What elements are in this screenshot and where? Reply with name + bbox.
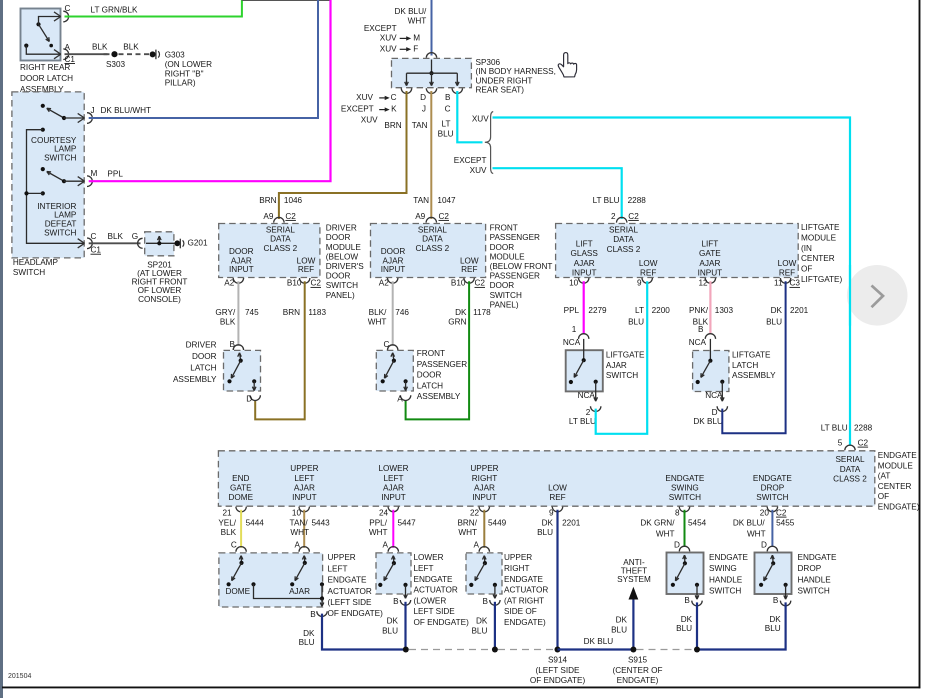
svg-text:BLK: BLK bbox=[123, 43, 139, 52]
wire DK BLU/WHT from headlamp switch pin J bbox=[89, 0, 318, 118]
svg-text:BLK: BLK bbox=[108, 232, 124, 241]
svg-text:DK BLU/: DK BLU/ bbox=[394, 7, 427, 16]
svg-text:DK: DK bbox=[769, 615, 781, 624]
wire TAN 1047 from SP306 to front passenger door module pin A9 bbox=[430, 91, 432, 219]
svg-text:SERIAL: SERIAL bbox=[609, 226, 639, 235]
svg-text:M: M bbox=[413, 34, 420, 43]
svg-text:LOWER: LOWER bbox=[414, 553, 444, 562]
svg-text:GLASS: GLASS bbox=[571, 249, 599, 258]
liftgate latch switch contacts bbox=[709, 339, 711, 361]
svg-text:ENDGATE): ENDGATE) bbox=[504, 618, 546, 627]
svg-text:SWING: SWING bbox=[709, 564, 737, 573]
svg-text:GRY/: GRY/ bbox=[215, 308, 236, 317]
svg-text:LOW: LOW bbox=[297, 256, 316, 265]
svg-text:K: K bbox=[391, 105, 397, 114]
svg-text:RIGHT: RIGHT bbox=[472, 474, 497, 483]
svg-text:LOW: LOW bbox=[778, 259, 797, 268]
svg-text:PANEL): PANEL) bbox=[490, 300, 519, 309]
svg-text:SWITCH: SWITCH bbox=[44, 229, 76, 238]
svg-text:SWING: SWING bbox=[671, 483, 699, 492]
front passenger door module box bbox=[371, 224, 486, 278]
svg-text:(AT LOWER: (AT LOWER bbox=[137, 269, 182, 278]
svg-text:J: J bbox=[422, 105, 426, 114]
svg-text:DOOR: DOOR bbox=[381, 247, 406, 256]
svg-text:HANDLE: HANDLE bbox=[798, 575, 832, 584]
svg-text:DROP: DROP bbox=[798, 564, 822, 573]
svg-text:SWITCH: SWITCH bbox=[490, 291, 522, 300]
svg-text:LIFT: LIFT bbox=[576, 240, 593, 249]
svg-text:GATE: GATE bbox=[230, 483, 252, 492]
svg-text:DOOR: DOOR bbox=[326, 272, 351, 281]
svg-text:AJAR: AJAR bbox=[289, 587, 310, 596]
svg-text:PASSENGER: PASSENGER bbox=[490, 233, 540, 242]
svg-text:BLU: BLU bbox=[471, 626, 487, 635]
svg-text:C: C bbox=[445, 105, 451, 114]
nav chevron bbox=[872, 286, 884, 308]
wire DK BLU/WHT 5455 from pin 20 bbox=[771, 510, 773, 547]
svg-text:M: M bbox=[91, 169, 98, 178]
svg-text:BLU: BLU bbox=[382, 626, 398, 635]
interior lamp defeat switch bbox=[41, 167, 45, 171]
svg-text:INPUT: INPUT bbox=[381, 265, 406, 274]
svg-text:(CENTER OF: (CENTER OF bbox=[612, 666, 662, 675]
svg-text:DRIVER'S: DRIVER'S bbox=[326, 262, 364, 271]
svg-text:D: D bbox=[420, 93, 426, 102]
svg-text:INPUT: INPUT bbox=[229, 265, 254, 274]
svg-text:WHT: WHT bbox=[290, 528, 309, 537]
svg-text:C2: C2 bbox=[776, 508, 787, 517]
wire PPL from headlamp switch pin M bbox=[89, 0, 331, 181]
svg-text:11: 11 bbox=[774, 279, 783, 288]
svg-text:WHT: WHT bbox=[747, 529, 766, 538]
svg-text:LT BLU: LT BLU bbox=[593, 196, 620, 205]
svg-text:PASSENGER: PASSENGER bbox=[417, 360, 467, 369]
dashed BLK wire from S303 to G303 bbox=[119, 53, 150, 55]
upper left actuator common bus bbox=[251, 582, 255, 586]
svg-text:AJAR: AJAR bbox=[383, 256, 404, 265]
svg-text:LEFT SIDE: LEFT SIDE bbox=[414, 607, 456, 616]
svg-text:AJAR: AJAR bbox=[474, 483, 495, 492]
svg-text:WHT: WHT bbox=[458, 528, 477, 537]
svg-text:CENTER: CENTER bbox=[801, 254, 835, 263]
svg-text:ENDGATE: ENDGATE bbox=[798, 553, 838, 562]
svg-text:BLU: BLU bbox=[676, 624, 692, 633]
right rear door latch assembly box bbox=[21, 9, 61, 61]
svg-text:ENDGATE: ENDGATE bbox=[753, 474, 793, 483]
right rear door latch switch bbox=[36, 22, 40, 26]
svg-text:BLU: BLU bbox=[766, 318, 782, 327]
svg-text:INPUT: INPUT bbox=[698, 268, 723, 277]
svg-text:2288: 2288 bbox=[854, 424, 873, 433]
svg-text:LEFT: LEFT bbox=[383, 474, 403, 483]
svg-text:(AT: (AT bbox=[878, 472, 891, 481]
wire GRY/BLK 745 from pin A2 to driver door latch bbox=[237, 281, 239, 346]
svg-text:SERIAL: SERIAL bbox=[266, 226, 296, 235]
svg-text:SP306: SP306 bbox=[476, 58, 501, 67]
svg-text:ENDGATE: ENDGATE bbox=[665, 474, 705, 483]
wire DK GRN/WHT 5454 from pin 8 bbox=[684, 510, 686, 547]
svg-text:2288: 2288 bbox=[628, 196, 647, 205]
svg-text:WHT: WHT bbox=[408, 17, 427, 26]
svg-text:BLK: BLK bbox=[221, 528, 237, 537]
svg-text:746: 746 bbox=[395, 308, 409, 317]
svg-text:B: B bbox=[698, 325, 704, 334]
svg-text:COURTESY: COURTESY bbox=[31, 136, 77, 145]
svg-text:OF: OF bbox=[801, 264, 812, 273]
svg-text:2201: 2201 bbox=[790, 306, 809, 315]
svg-text:SERIAL: SERIAL bbox=[418, 226, 448, 235]
svg-text:DK: DK bbox=[771, 306, 783, 315]
svg-text:C2: C2 bbox=[439, 212, 450, 221]
svg-text:LIFTGATE): LIFTGATE) bbox=[801, 275, 843, 284]
svg-text:LIFTGATE: LIFTGATE bbox=[732, 351, 771, 360]
endgate swing handle switch box bbox=[667, 553, 704, 595]
svg-text:EXCEPT: EXCEPT bbox=[454, 156, 487, 165]
svg-text:ENDGATE): ENDGATE) bbox=[878, 503, 920, 512]
wire LT BLU from SP306 pin B bbox=[457, 91, 482, 142]
svg-text:END: END bbox=[232, 474, 249, 483]
svg-text:DK: DK bbox=[616, 616, 628, 625]
svg-text:(BELOW FRONT: (BELOW FRONT bbox=[490, 262, 553, 271]
svg-text:745: 745 bbox=[245, 308, 259, 317]
svg-text:DK: DK bbox=[476, 617, 488, 626]
svg-text:DK GRN/: DK GRN/ bbox=[640, 518, 675, 527]
svg-text:NCA: NCA bbox=[563, 338, 581, 347]
svg-text:HANDLE: HANDLE bbox=[709, 575, 743, 584]
svg-text:5444: 5444 bbox=[246, 518, 265, 527]
svg-text:FRONT: FRONT bbox=[490, 224, 518, 233]
svg-text:(AT RIGHT: (AT RIGHT bbox=[504, 596, 544, 605]
svg-text:LOW: LOW bbox=[548, 483, 567, 492]
svg-text:DK: DK bbox=[455, 308, 467, 317]
svg-text:DATA: DATA bbox=[422, 235, 443, 244]
svg-text:SYSTEM: SYSTEM bbox=[617, 575, 651, 584]
svg-text:INTERIOR: INTERIOR bbox=[37, 202, 76, 211]
svg-text:EXCEPT: EXCEPT bbox=[364, 24, 397, 33]
headlamp switch internal bus wire bbox=[27, 130, 85, 244]
svg-text:B: B bbox=[310, 610, 316, 619]
endgate drop handle switch box bbox=[755, 553, 792, 595]
svg-text:24: 24 bbox=[379, 508, 389, 517]
svg-text:1303: 1303 bbox=[715, 306, 734, 315]
svg-text:DOOR: DOOR bbox=[417, 371, 442, 380]
svg-text:C2: C2 bbox=[285, 212, 296, 221]
svg-text:SWITCH: SWITCH bbox=[326, 281, 358, 290]
liftgate ajar switch pin 2 connector bbox=[591, 406, 601, 411]
wire LT BLU XUV branch to endgate module bbox=[493, 118, 851, 446]
svg-text:CLASS 2: CLASS 2 bbox=[264, 244, 298, 253]
svg-text:BLU: BLU bbox=[628, 318, 644, 327]
upper left actuator pin B connector bbox=[317, 611, 327, 616]
svg-text:DOOR: DOOR bbox=[326, 233, 351, 242]
wire PPL 2279 from pin 10 to liftgate ajar switch bbox=[583, 281, 585, 334]
wire LT BLU EXCEPT XUV branch to liftgate module bbox=[493, 168, 622, 219]
wire DK BLU from upper right actuator to bus bbox=[494, 602, 496, 650]
svg-text:RIGHT: RIGHT bbox=[504, 564, 529, 573]
svg-text:DRIVER: DRIVER bbox=[326, 224, 357, 233]
svg-text:(LEFT SIDE: (LEFT SIDE bbox=[328, 598, 373, 607]
svg-text:(LEFT SIDE: (LEFT SIDE bbox=[536, 666, 581, 675]
svg-text:SWITCH: SWITCH bbox=[798, 587, 830, 596]
splice S914 bbox=[555, 647, 561, 653]
liftgate latch pin D connector bbox=[717, 406, 727, 411]
svg-text:S914: S914 bbox=[548, 655, 568, 664]
svg-text:DROP: DROP bbox=[761, 483, 785, 492]
wire DK BLU 2201 from endgate module pin 9 to splice S914 bbox=[556, 510, 558, 650]
svg-text:1: 1 bbox=[572, 325, 577, 334]
svg-text:B: B bbox=[230, 340, 236, 349]
svg-text:INPUT: INPUT bbox=[572, 268, 597, 277]
wire TAN/WHT 5443 from pin 10 bbox=[303, 510, 305, 548]
wire BRN 1183 from pin B10 to driver door latch pin D bbox=[255, 281, 305, 419]
svg-text:UNDER RIGHT: UNDER RIGHT bbox=[476, 77, 533, 86]
dashed bus segment 1 bbox=[409, 649, 492, 651]
wire BLK from headlamp switch pin C to SP201 bbox=[89, 242, 141, 244]
svg-text:2: 2 bbox=[611, 212, 616, 221]
ground G303 symbol bbox=[150, 51, 156, 57]
svg-text:LOW: LOW bbox=[460, 256, 479, 265]
junction on headlamp switch bus bbox=[24, 191, 28, 195]
svg-text:OF ENDGATE): OF ENDGATE) bbox=[328, 609, 384, 618]
svg-text:LIFTGATE: LIFTGATE bbox=[801, 223, 840, 232]
svg-text:CLASS 2: CLASS 2 bbox=[416, 244, 450, 253]
svg-text:BRN: BRN bbox=[384, 121, 401, 130]
svg-text:ASSEMBLY: ASSEMBLY bbox=[417, 392, 461, 401]
dashed bus segment 2 bbox=[498, 649, 555, 651]
wire YEL/BLK 5444 from pin 21 bbox=[240, 510, 242, 548]
svg-text:LIFTGATE: LIFTGATE bbox=[606, 351, 645, 360]
svg-text:D: D bbox=[712, 408, 718, 417]
svg-text:INPUT: INPUT bbox=[381, 493, 406, 502]
svg-text:RIGHT "B": RIGHT "B" bbox=[165, 69, 204, 78]
svg-text:REF: REF bbox=[779, 268, 795, 277]
svg-text:LATCH: LATCH bbox=[190, 363, 216, 372]
svg-text:CLASS 2: CLASS 2 bbox=[607, 245, 641, 254]
liftgate module box bbox=[556, 224, 799, 278]
svg-text:8: 8 bbox=[675, 508, 680, 517]
svg-text:(ON LOWER: (ON LOWER bbox=[165, 60, 212, 69]
svg-text:A9: A9 bbox=[415, 212, 425, 221]
svg-text:C2: C2 bbox=[475, 279, 486, 288]
svg-text:REF: REF bbox=[549, 493, 565, 502]
upper right endgate actuator box bbox=[466, 553, 502, 594]
svg-text:21: 21 bbox=[223, 508, 233, 517]
svg-text:22: 22 bbox=[470, 508, 480, 517]
next page navigation button bbox=[847, 265, 908, 326]
SP201 internal wire and splice dot bbox=[146, 242, 174, 244]
svg-text:A: A bbox=[65, 43, 71, 52]
svg-text:C2: C2 bbox=[311, 279, 322, 288]
svg-text:BLU: BLU bbox=[537, 528, 553, 537]
wire DK BLU from lower left actuator to bus bbox=[404, 602, 406, 650]
liftgate ajar switch contacts bbox=[583, 339, 585, 360]
svg-text:NCA: NCA bbox=[705, 391, 723, 400]
endgate drop handle switch pin B connector bbox=[780, 601, 790, 606]
SP306 bottom connectors bbox=[401, 88, 411, 93]
dashed bus segment 3 bbox=[637, 649, 695, 651]
svg-text:BLU: BLU bbox=[765, 624, 781, 633]
svg-text:SWITCH: SWITCH bbox=[44, 154, 76, 163]
wire DK BLU to anti-theft system bbox=[632, 600, 634, 650]
wire LT GRN/BLK from right rear door latch pin C bbox=[65, 0, 242, 17]
svg-text:DOOR: DOOR bbox=[490, 281, 515, 290]
SP306 internal wires bbox=[431, 60, 433, 74]
svg-text:C: C bbox=[231, 540, 237, 549]
svg-text:DOME: DOME bbox=[229, 493, 254, 502]
svg-text:DOOR: DOOR bbox=[490, 243, 515, 252]
svg-text:BRN: BRN bbox=[283, 308, 300, 317]
svg-text:REF: REF bbox=[640, 268, 656, 277]
svg-text:PANEL): PANEL) bbox=[326, 291, 355, 300]
svg-text:HEADLAMP: HEADLAMP bbox=[13, 258, 59, 267]
headlamp switch box bbox=[12, 92, 84, 258]
svg-text:SWITCH: SWITCH bbox=[669, 493, 701, 502]
splice S915 bbox=[630, 647, 636, 653]
svg-text:LT: LT bbox=[442, 120, 451, 129]
svg-text:ENDGATE: ENDGATE bbox=[328, 576, 368, 585]
pin C connector of right rear door latch bbox=[54, 12, 61, 17]
svg-text:GRN: GRN bbox=[448, 318, 466, 327]
svg-text:BLK: BLK bbox=[92, 43, 108, 52]
wire DK BLU from upper left actuator to bus bbox=[322, 614, 406, 650]
pin J connector of headlamp switch bbox=[78, 113, 85, 118]
svg-text:ACTUATOR: ACTUATOR bbox=[414, 586, 458, 595]
junction at lower left actuator wire bbox=[403, 647, 409, 653]
svg-text:B: B bbox=[684, 596, 690, 605]
svg-text:MODULE: MODULE bbox=[801, 234, 837, 243]
svg-text:(LOWER: (LOWER bbox=[414, 596, 447, 605]
wire PPL/WHT 5447 from pin 24 bbox=[392, 510, 394, 548]
svg-text:ENDGATE: ENDGATE bbox=[709, 553, 749, 562]
hand cursor bbox=[558, 53, 576, 77]
pin A / C1 connector of right rear door latch bbox=[54, 50, 61, 55]
upper right actuator pin B connector bbox=[490, 600, 500, 605]
wire BLK/WHT 746 from pin A2 to front passenger door latch bbox=[392, 281, 394, 346]
svg-text:DATA: DATA bbox=[840, 465, 861, 474]
svg-text:DOME: DOME bbox=[226, 587, 251, 596]
svg-text:D: D bbox=[674, 541, 680, 550]
svg-text:REF: REF bbox=[298, 265, 314, 274]
svg-text:REF: REF bbox=[461, 265, 477, 274]
svg-text:SIDE OF: SIDE OF bbox=[504, 607, 537, 616]
svg-text:LT BLU: LT BLU bbox=[569, 417, 596, 426]
svg-text:SWITCH: SWITCH bbox=[13, 268, 45, 277]
svg-text:UPPER: UPPER bbox=[504, 553, 532, 562]
svg-text:201504: 201504 bbox=[8, 673, 31, 680]
svg-text:NCA: NCA bbox=[578, 391, 596, 400]
pin C / C1 connector of headlamp switch bbox=[78, 239, 85, 244]
svg-text:ENDGATE: ENDGATE bbox=[878, 451, 918, 460]
svg-text:B: B bbox=[393, 597, 399, 606]
svg-text:WHT: WHT bbox=[656, 529, 675, 538]
wire BLK from pin A to splice S303 bbox=[65, 53, 108, 55]
svg-text:10: 10 bbox=[569, 279, 579, 288]
wire DK BLU bus S914 to S915 bbox=[558, 648, 634, 650]
svg-text:UPPER: UPPER bbox=[328, 553, 356, 562]
svg-text:B: B bbox=[773, 596, 779, 605]
svg-text:BRN/: BRN/ bbox=[457, 518, 477, 527]
svg-text:C1: C1 bbox=[91, 246, 102, 255]
svg-text:2279: 2279 bbox=[588, 306, 607, 315]
svg-text:LEFT: LEFT bbox=[294, 474, 314, 483]
svg-text:G201: G201 bbox=[188, 239, 208, 248]
svg-text:CONSOLE): CONSOLE) bbox=[138, 295, 181, 304]
svg-text:12: 12 bbox=[699, 279, 709, 288]
svg-text:C: C bbox=[91, 232, 97, 241]
svg-text:BLK: BLK bbox=[220, 318, 236, 327]
svg-text:DOOR: DOOR bbox=[192, 352, 217, 361]
svg-text:C2: C2 bbox=[628, 212, 639, 221]
svg-text:PASSENGER: PASSENGER bbox=[490, 272, 540, 281]
svg-text:XUV: XUV bbox=[470, 166, 487, 175]
upper left endgate actuator box bbox=[219, 553, 323, 607]
svg-text:CENTER: CENTER bbox=[878, 482, 912, 491]
svg-text:ASSEMBLY: ASSEMBLY bbox=[732, 371, 776, 380]
svg-text:DK: DK bbox=[542, 518, 554, 527]
svg-text:BLU: BLU bbox=[438, 130, 454, 139]
junction at upper right actuator wire bbox=[492, 647, 498, 653]
svg-text:D: D bbox=[761, 541, 767, 550]
svg-text:5449: 5449 bbox=[488, 518, 507, 527]
svg-text:DK BLU/: DK BLU/ bbox=[733, 518, 766, 527]
svg-text:J: J bbox=[91, 106, 95, 115]
svg-text:SERIAL: SERIAL bbox=[835, 455, 865, 464]
svg-text:ACTUATOR: ACTUATOR bbox=[328, 587, 372, 596]
anti-theft system arrow bbox=[629, 587, 639, 600]
svg-text:5454: 5454 bbox=[688, 518, 707, 527]
svg-text:WHT: WHT bbox=[368, 318, 387, 327]
svg-text:C: C bbox=[65, 4, 71, 13]
svg-text:LEFT: LEFT bbox=[414, 564, 434, 573]
wire DK BLU/WHT into splice SP306 bbox=[431, 0, 433, 56]
endgate module box bbox=[218, 451, 874, 506]
svg-text:A: A bbox=[397, 395, 403, 404]
svg-text:DATA: DATA bbox=[613, 235, 634, 244]
svg-text:REAR SEAT): REAR SEAT) bbox=[476, 86, 525, 95]
svg-text:LOW: LOW bbox=[639, 259, 658, 268]
svg-text:MODULE: MODULE bbox=[490, 252, 526, 261]
courtesy lamp switch bbox=[41, 104, 45, 108]
wire LT BLU 2200 from liftgate ajar switch to pin 9 bbox=[596, 281, 648, 434]
svg-text:LT: LT bbox=[635, 306, 644, 315]
XUV / EXCEPT XUV selection brace bbox=[485, 112, 493, 174]
wire DK GRN 1178 from pin B10 to front passenger door latch pin A bbox=[406, 281, 470, 419]
svg-text:TAN/: TAN/ bbox=[290, 518, 309, 527]
svg-text:PPL/: PPL/ bbox=[369, 518, 387, 527]
endgate drop handle switch contacts bbox=[771, 555, 773, 559]
splice SP201 box bbox=[145, 232, 174, 256]
wire DK BLU from drop handle switch to bus bbox=[697, 602, 786, 649]
svg-text:5: 5 bbox=[838, 438, 843, 447]
svg-text:ENDGATE): ENDGATE) bbox=[617, 676, 659, 685]
svg-text:LAMP: LAMP bbox=[54, 211, 77, 220]
upper left actuator AJAR switch bbox=[302, 556, 304, 560]
svg-text:S915: S915 bbox=[628, 655, 648, 664]
svg-text:BLK/: BLK/ bbox=[369, 308, 387, 317]
svg-text:UPPER: UPPER bbox=[290, 464, 318, 473]
front passenger door latch assembly box bbox=[376, 350, 413, 391]
svg-text:A: A bbox=[383, 540, 389, 549]
svg-text:BLU: BLU bbox=[611, 625, 627, 634]
svg-text:BRN: BRN bbox=[259, 196, 276, 205]
svg-text:DRIVER: DRIVER bbox=[186, 340, 217, 349]
svg-text:1046: 1046 bbox=[284, 196, 303, 205]
svg-text:PNK/: PNK/ bbox=[689, 306, 709, 315]
svg-text:NCA: NCA bbox=[689, 338, 707, 347]
lower left endgate actuator box bbox=[376, 553, 411, 594]
driver door latch switch bbox=[238, 353, 240, 357]
svg-text:5455: 5455 bbox=[776, 518, 795, 527]
